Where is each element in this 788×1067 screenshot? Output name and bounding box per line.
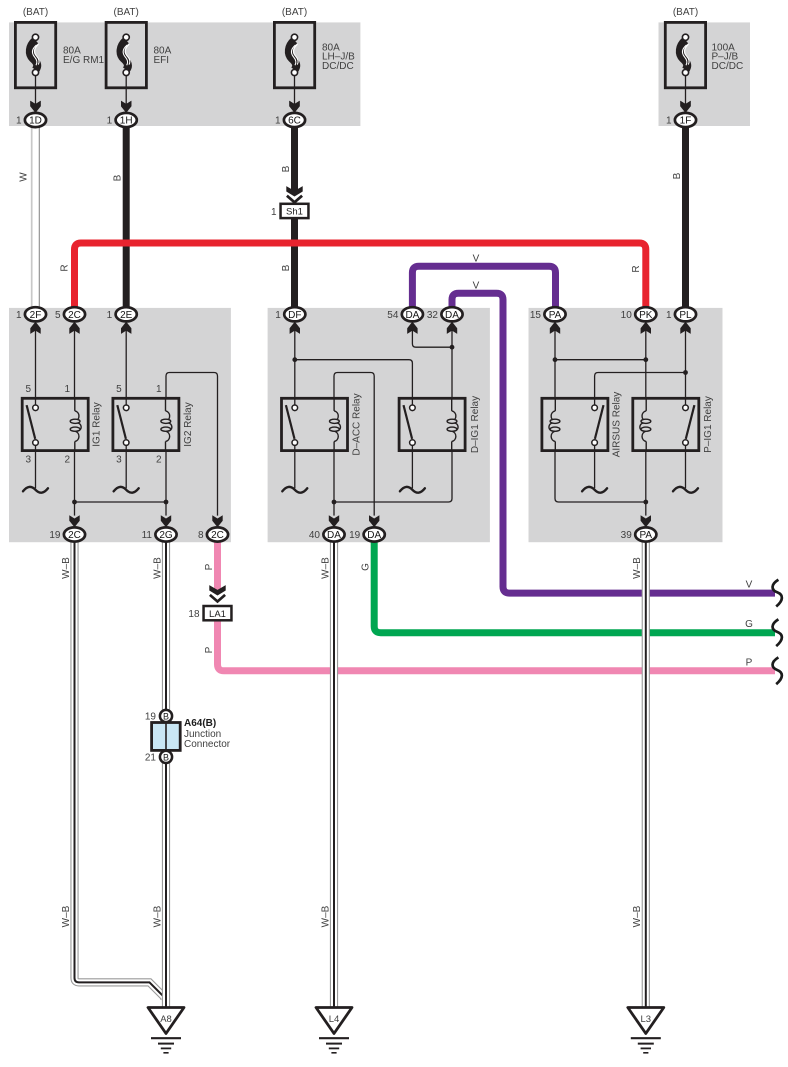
wire from 32DA to D-IG1 relay coil (451, 331, 453, 399)
svg-text:15: 15 (530, 310, 542, 321)
wire B from 6C to shield Sh1 (291, 127, 298, 192)
fuse 80A LH-J/B DC/DC (274, 22, 314, 112)
svg-text:DA: DA (367, 530, 381, 541)
relay AIRSUS (542, 398, 608, 450)
wire from 2C to IG1 relay pin 1 (74, 331, 76, 399)
svg-text:2C: 2C (68, 530, 81, 541)
wire from 54DA over to 32DA wire (412, 331, 452, 348)
connector DA pin 19 (349, 515, 385, 541)
svg-text:2C: 2C (68, 310, 81, 321)
grey block: center relay box D-ACC/D-IG1 (268, 308, 490, 542)
svg-text:21: 21 (145, 752, 157, 763)
wire IG2 relay pin 3 to body ground squiggle (125, 451, 127, 489)
svg-text:(BAT): (BAT) (282, 7, 307, 18)
svg-text:G: G (361, 563, 372, 571)
svg-text:DA: DA (445, 310, 459, 321)
wire W from 1D to 2F (white) (32, 127, 40, 307)
svg-text:W–B: W–B (61, 905, 72, 927)
wire from PL node over to AIRSUS relay switch (595, 373, 686, 399)
wire AIRSUS switch to body ground squiggle (594, 451, 596, 489)
svg-text:W–B: W–B (632, 905, 643, 927)
svg-text:18: 18 (188, 609, 200, 620)
pin labels IG1 relay 5/1/3/2 (25, 384, 70, 466)
wire break symbol for V at right edge (773, 580, 782, 607)
wire from 15PA to AIRSUS relay coil (554, 331, 556, 399)
junction node on PK wire (643, 357, 648, 362)
svg-text:1: 1 (275, 310, 281, 321)
connector 2C pin 5 (55, 307, 85, 334)
svg-text:1: 1 (64, 384, 70, 395)
connector LA1 pin 18 (188, 606, 231, 620)
svg-text:5: 5 (55, 310, 61, 321)
fuse 100A P-J/B DC/DC (665, 22, 705, 112)
wire IG2 relay pin 2 down to 11 2G (165, 451, 167, 516)
svg-text:W–B: W–B (632, 557, 643, 579)
wire from DF to D-ACC relay switch (294, 331, 296, 399)
wire P-IG1 coil down to 39PA (645, 451, 647, 516)
svg-text:39: 39 (621, 530, 633, 541)
svg-text:V: V (473, 281, 480, 292)
svg-text:R: R (631, 265, 642, 272)
body ground squiggle under D-ACC relay (282, 487, 307, 493)
wire from DF node over to D-IG1 relay switch (295, 360, 413, 399)
connector 6C pin 1 (275, 101, 305, 127)
relay D-IG1 (399, 398, 465, 450)
grey block: P-J/B fuse box (top right) (659, 22, 751, 126)
wire from 10PK to P-IG1 relay coil (645, 331, 647, 399)
svg-text:11: 11 (142, 530, 153, 541)
wire R from 2C to PK (75, 243, 646, 307)
svg-text:1H: 1H (120, 116, 133, 127)
svg-text:80AEFI: 80AEFI (154, 46, 172, 66)
body ground squiggle under IG1 relay (23, 487, 48, 493)
svg-text:19: 19 (145, 711, 157, 722)
svg-text:B: B (163, 711, 169, 721)
pin labels IG2 relay 5/1/3/2 (116, 384, 162, 466)
junction node on PA wire (553, 357, 558, 362)
wire W-B from 39PA to ground L3 (642, 541, 650, 1009)
wire W-B from 40DA to ground L4 (330, 541, 338, 1009)
wire B from Sh1 to DF (291, 218, 298, 307)
svg-text:W–B: W–B (320, 905, 331, 927)
wire from 2E to IG2 relay pin 5 (125, 331, 127, 399)
connector 2G pin 11 (142, 515, 177, 541)
wire from D-ACC coil up and over to 19DA (334, 373, 374, 516)
svg-text:1D: 1D (29, 116, 42, 127)
shield chevrons above LA1 (209, 585, 225, 601)
svg-text:PA: PA (639, 530, 652, 541)
svg-text:1: 1 (666, 116, 672, 127)
wire D-ACC switch to body ground squiggle (294, 451, 296, 489)
svg-text:L4: L4 (329, 1014, 340, 1025)
svg-text:P: P (204, 563, 215, 570)
svg-text:1: 1 (156, 384, 162, 395)
wire joining D-ACC and D-IG1 coil returns (334, 451, 452, 502)
connector PA pin 39 (621, 515, 657, 541)
svg-text:R: R (60, 264, 71, 271)
wire joining IG1 and IG2 coil returns (75, 501, 167, 503)
junction node on PL wire (683, 370, 688, 375)
svg-text:54: 54 (387, 310, 399, 321)
body ground squiggle under P-IG1 relay (673, 487, 698, 493)
svg-text:Sh1: Sh1 (286, 207, 303, 218)
junction node on 32DA wire (450, 345, 455, 350)
connector 1F pin 1 (666, 101, 696, 127)
wire W-B from 11 2G through A64(B) to ground A8 (162, 541, 170, 1009)
relay P-IG1 (633, 398, 699, 450)
wire AIRSUS coil return over to 39PA wire (555, 451, 646, 502)
connector DF pin 1 (275, 307, 305, 334)
wire B from 1H to 2E (123, 127, 130, 307)
svg-text:W–B: W–B (320, 557, 331, 579)
svg-text:W–B: W–B (152, 557, 163, 579)
svg-text:PA: PA (549, 310, 562, 321)
junction node at 39PA wire (643, 500, 648, 505)
svg-text:W–B: W–B (61, 557, 72, 579)
connector DA pin 40 (309, 515, 345, 541)
svg-text:D–ACC Relay: D–ACC Relay (352, 393, 363, 455)
connector 2C pin 8 (198, 515, 228, 541)
wire from 1PL to P-IG1 relay switch (685, 331, 687, 399)
connector 2E pin 1 (107, 307, 137, 334)
svg-text:8: 8 (198, 530, 204, 541)
svg-text:B: B (281, 264, 292, 271)
wire W-B from 19 2C down to ground A8 (75, 541, 165, 1000)
ground L3 (628, 1008, 664, 1053)
grey block: right relay box AIRSUS/P-IG1 (529, 308, 723, 542)
connector DA pin 32 (427, 307, 463, 334)
svg-text:1: 1 (16, 310, 22, 321)
svg-text:P–IG1 Relay: P–IG1 Relay (703, 396, 714, 453)
relay IG2 (113, 398, 179, 450)
svg-text:2C: 2C (211, 530, 224, 541)
svg-text:1: 1 (271, 207, 277, 218)
grey block: engine room junction box (top band) (9, 22, 360, 126)
svg-text:3: 3 (25, 455, 31, 466)
relay D-ACC (282, 398, 348, 450)
svg-text:(BAT): (BAT) (114, 7, 139, 18)
wire from 2F to IG1 relay pin 5 (35, 331, 37, 399)
svg-text:PK: PK (639, 310, 653, 321)
junction node at IG2 pin 2 (164, 500, 169, 505)
svg-text:2E: 2E (120, 310, 133, 321)
body ground squiggle under D-IG1 relay (400, 487, 425, 493)
svg-text:DA: DA (405, 310, 419, 321)
svg-text:B: B (281, 165, 292, 172)
svg-text:P: P (746, 657, 753, 668)
svg-text:L3: L3 (641, 1014, 652, 1025)
connector 1H pin 1 (107, 101, 137, 127)
svg-text:6C: 6C (288, 116, 301, 127)
svg-text:A64(B): A64(B) (184, 718, 216, 729)
svg-text:1: 1 (107, 116, 113, 127)
svg-text:1: 1 (275, 116, 281, 127)
svg-text:32: 32 (427, 310, 439, 321)
svg-text:AIRSUS Relay: AIRSUS Relay (612, 392, 623, 458)
svg-text:10: 10 (621, 310, 633, 321)
svg-text:Connector: Connector (184, 739, 231, 750)
shield connector Sh1 pin 1 (271, 204, 308, 218)
svg-text:(BAT): (BAT) (23, 7, 48, 18)
junction node on DF wire (292, 357, 297, 362)
svg-text:19: 19 (349, 530, 361, 541)
ground L4 (316, 1008, 352, 1053)
wire P-IG1 switch to body ground squiggle (685, 451, 687, 489)
svg-text:PL: PL (679, 310, 692, 321)
junction connector A64(B) (152, 710, 181, 763)
wire G from 19DA going right (green) (374, 541, 775, 632)
svg-text:B: B (113, 174, 124, 181)
svg-text:V: V (473, 254, 480, 265)
svg-text:(BAT): (BAT) (673, 7, 698, 18)
svg-text:DF: DF (288, 310, 301, 321)
wire P from LA1 going right (pink) (218, 620, 776, 670)
svg-text:B: B (163, 752, 169, 762)
wire D-ACC coil down to 40DA (333, 451, 335, 516)
svg-text:G: G (745, 619, 753, 630)
wire IG1 relay pin 2 down to 19 2C (74, 451, 76, 516)
fuse 80A E/G RM1 (15, 22, 55, 112)
junction node at D-ACC coil return (332, 500, 337, 505)
svg-text:1: 1 (107, 310, 113, 321)
fuse 80A EFI (106, 22, 146, 112)
wire V from 32DA going right (inner violet) (452, 293, 775, 593)
connector 2C pin 19 (49, 515, 85, 541)
svg-text:IG1 Relay: IG1 Relay (92, 402, 103, 446)
wire joining PA node to PK wire (555, 359, 646, 361)
svg-text:19: 19 (49, 530, 61, 541)
wire D-IG1 switch to body ground squiggle (411, 451, 413, 489)
grey block: left relay box IG1/IG2 (9, 308, 231, 542)
wire IG1 relay pin 3 to body ground squiggle (35, 451, 37, 489)
svg-text:3: 3 (116, 455, 122, 466)
wire P from 8 2C to LA1 (pink) (214, 541, 221, 590)
svg-text:DA: DA (327, 530, 341, 541)
body ground squiggle under AIRSUS relay (582, 487, 607, 493)
connector PA pin 15 (530, 307, 566, 334)
svg-text:B: B (672, 172, 683, 179)
svg-text:40: 40 (309, 530, 321, 541)
junction node at IG1 pin 2 (72, 500, 77, 505)
wire B from 1F to PL (682, 127, 689, 307)
relay IG1 (22, 398, 88, 450)
wire break symbol for P at right edge (773, 657, 782, 684)
svg-text:5: 5 (25, 384, 31, 395)
svg-text:5: 5 (116, 384, 122, 395)
svg-text:2: 2 (156, 455, 162, 466)
connector DA pin 54 (387, 307, 423, 334)
connector PK pin 10 (621, 307, 657, 334)
connector PL pin 1 (666, 307, 696, 334)
connector 1D pin 1 (16, 101, 46, 127)
wire from IG2 relay pin 1 up and over to 8 2C (166, 373, 218, 516)
svg-text:IG2 Relay: IG2 Relay (183, 402, 194, 446)
svg-text:1F: 1F (680, 116, 692, 127)
svg-text:P: P (204, 646, 215, 653)
svg-text:V: V (746, 580, 753, 591)
body ground squiggle under IG2 relay (114, 487, 139, 493)
svg-text:1: 1 (16, 116, 22, 127)
connector 2F pin 1 (16, 307, 46, 334)
svg-text:D–IG1 Relay: D–IG1 Relay (470, 396, 481, 453)
ground A8 (148, 1008, 184, 1053)
svg-text:2: 2 (64, 455, 70, 466)
svg-text:1: 1 (666, 310, 672, 321)
wire break symbol for G at right edge (773, 619, 782, 646)
svg-text:LA1: LA1 (209, 609, 226, 620)
svg-text:W–B: W–B (152, 905, 163, 927)
svg-text:2F: 2F (30, 310, 42, 321)
shield chevrons above Sh1 (286, 186, 302, 202)
svg-text:W: W (19, 172, 30, 182)
svg-text:A8: A8 (160, 1014, 172, 1025)
wire V from 54DA to 15PA (outer violet jumper) (412, 266, 555, 307)
svg-text:2G: 2G (159, 530, 173, 541)
